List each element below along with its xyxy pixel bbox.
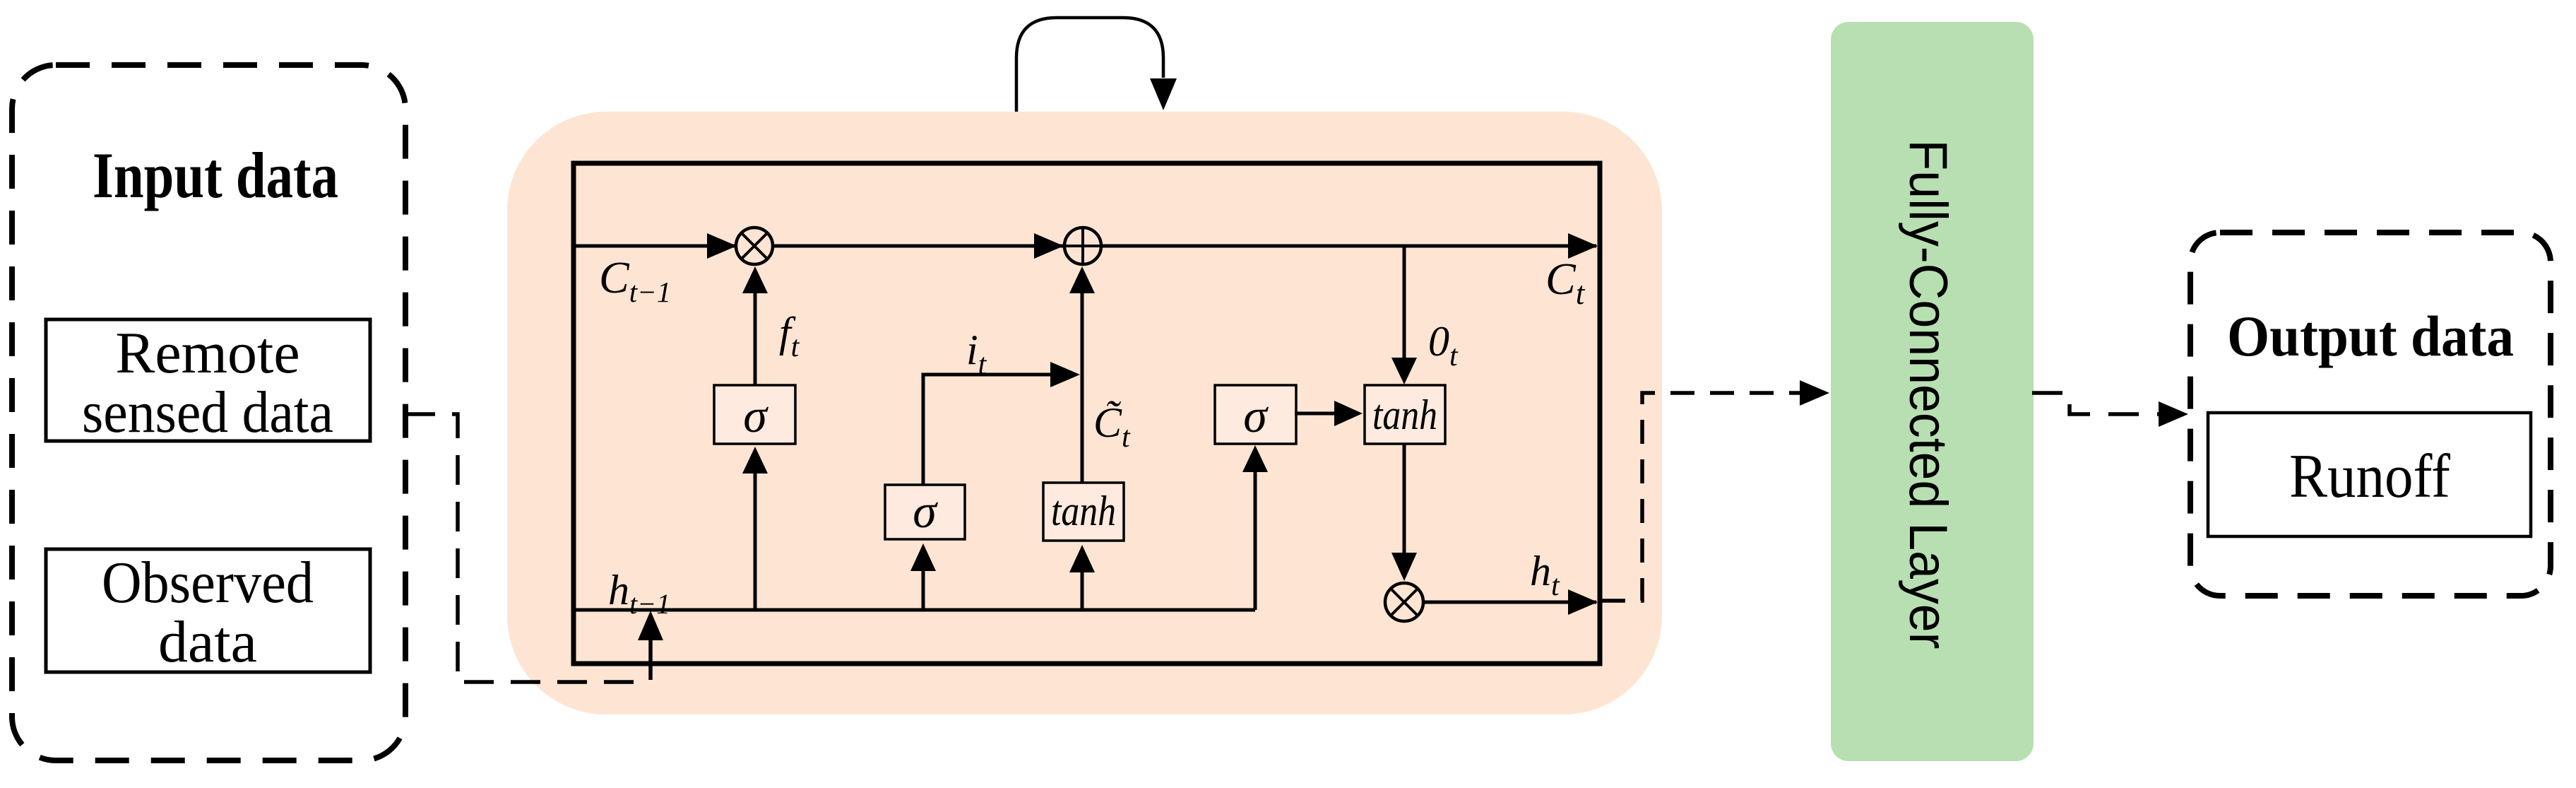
sigma box forget gate bbox=[714, 385, 795, 444]
svg-text:σ: σ bbox=[1243, 389, 1269, 442]
dashed connector input to LSTM bbox=[405, 414, 648, 682]
h_t line to right edge bbox=[1423, 601, 1596, 604]
plus node bbox=[1064, 228, 1101, 264]
sigma box input gate bbox=[885, 485, 965, 539]
arrow into LSTM bottom bbox=[648, 636, 653, 680]
arrow h-line up to sigma3 bbox=[1254, 471, 1257, 610]
box: Observed data bbox=[46, 549, 370, 672]
branch from C line down to tanh4 bbox=[1403, 246, 1406, 358]
sigma box output gate bbox=[1215, 385, 1296, 444]
arrowhead into plus bbox=[1034, 233, 1064, 259]
Runoff box bbox=[2208, 413, 2531, 536]
arrowhead into multiply bbox=[707, 233, 737, 259]
arrow h-line up to sigma1 bbox=[754, 471, 757, 610]
LSTM cell background (peach) bbox=[507, 112, 1662, 715]
arrow sigma1 up to multiply bbox=[754, 291, 757, 385]
arrow h-line up to tanh3 bbox=[1081, 571, 1084, 610]
multiply node 2 bbox=[1385, 583, 1423, 621]
dashed connector FC to output bbox=[2032, 393, 2160, 414]
dashed connector LSTM to FC bbox=[1601, 393, 1801, 601]
output dashed container bbox=[2190, 233, 2551, 596]
line tanh up to plus bbox=[1081, 292, 1084, 483]
multiply node (forget gate) bbox=[736, 228, 773, 264]
LSTM inner box bbox=[574, 163, 1600, 664]
arrow h-line up to sigma2 bbox=[922, 570, 925, 610]
h_{t-1} line bbox=[574, 608, 1255, 612]
input data dashed container bbox=[12, 65, 405, 760]
tanh box output bbox=[1365, 385, 1445, 444]
svg-text:tanh: tanh bbox=[1372, 392, 1437, 438]
C line bbox=[576, 245, 1596, 248]
FC layer box bbox=[1831, 22, 2034, 761]
svg-text:data: data bbox=[158, 609, 257, 675]
svg-text:σ: σ bbox=[743, 389, 768, 442]
tanh box candidate bbox=[1043, 483, 1124, 541]
arrow tanh4 down to multiply2 bbox=[1403, 444, 1406, 554]
svg-text:σ: σ bbox=[913, 484, 938, 538]
svg-text:Output data: Output data bbox=[2227, 304, 2514, 368]
svg-text:Observed: Observed bbox=[102, 550, 314, 616]
box: Remote sensed data bbox=[46, 319, 370, 441]
svg-text:Remote: Remote bbox=[115, 320, 299, 386]
svg-text:tanh: tanh bbox=[1051, 488, 1116, 534]
self-loop arrow bbox=[1016, 18, 1163, 112]
arrow sigma3 right to tanh4 bbox=[1295, 412, 1336, 416]
i_t path bbox=[923, 375, 1050, 485]
svg-text:Input data: Input data bbox=[93, 139, 338, 211]
arrowhead C_t at right edge bbox=[1568, 233, 1598, 259]
svg-text:sensed data: sensed data bbox=[82, 380, 333, 445]
svg-text:Fully-Connected Layer: Fully-Connected Layer bbox=[1898, 140, 1958, 649]
svg-text:Runoff: Runoff bbox=[2289, 442, 2451, 511]
